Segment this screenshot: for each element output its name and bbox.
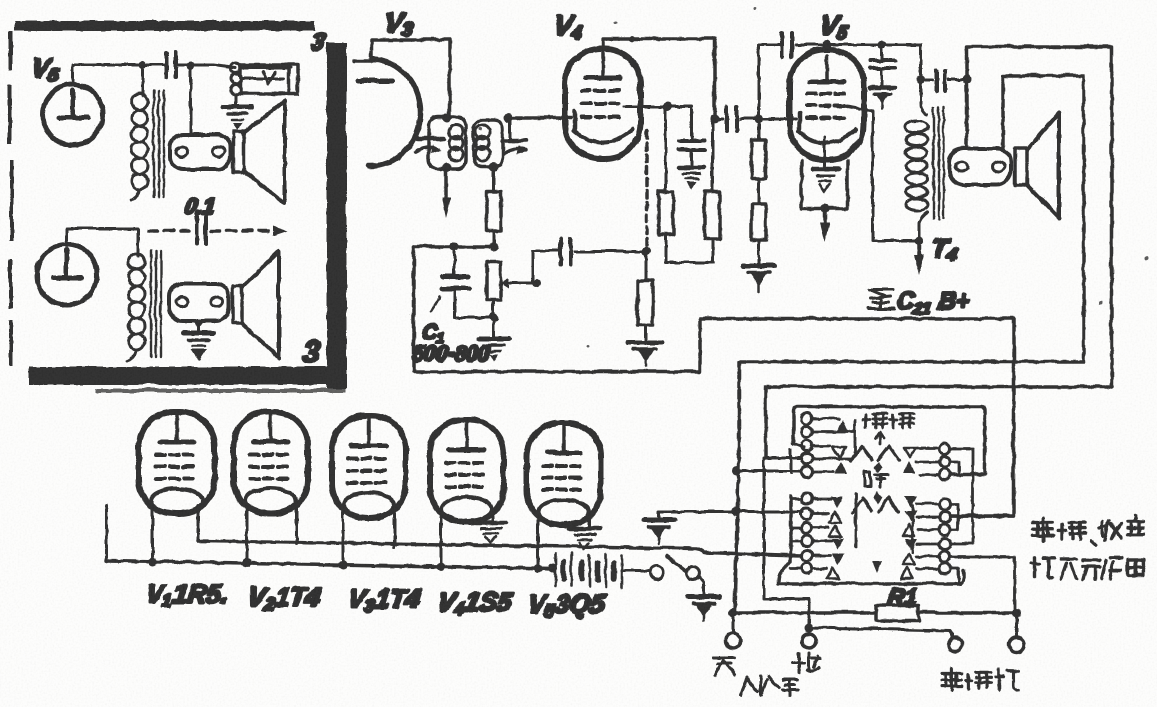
inner loop wire <box>734 75 1083 612</box>
ground (inset upper) <box>222 106 251 129</box>
output transformer T4 <box>905 44 943 274</box>
right stubs upper <box>915 447 984 543</box>
tube V1 <box>138 411 214 513</box>
label V3 <box>382 6 416 40</box>
ground at tube V4b <box>475 522 505 542</box>
mark at border top <box>309 28 327 55</box>
tube V3 arc <box>353 58 420 165</box>
switch frame <box>778 406 984 583</box>
dashed link with 0.1 cap <box>148 216 287 243</box>
right hollow+solid arrows upper <box>902 447 916 473</box>
label listen <box>864 471 887 486</box>
scan specks <box>479 7 1149 347</box>
label 0.1 <box>182 193 216 218</box>
left stubs lower <box>790 494 855 568</box>
left arrows upper <box>832 419 848 473</box>
earpiece (output) <box>949 148 1010 184</box>
coupling cap V4-V5 <box>714 106 795 130</box>
label telephone set <box>941 668 1018 690</box>
V5 plate wire to T4 bottom <box>843 105 918 240</box>
capacitor to ground (V4) <box>678 140 704 189</box>
wires into switch from left <box>732 457 801 475</box>
label zhi (to) <box>867 289 893 308</box>
left contacts upper <box>801 413 812 477</box>
label earth <box>792 652 819 672</box>
arrow down small (below listen) <box>873 490 881 504</box>
coupling capacitor <box>560 238 650 264</box>
left contact stubs upper <box>812 418 854 471</box>
speaker lower (inset) <box>232 251 278 357</box>
cathode box below V5 <box>801 136 847 242</box>
capacitor (inset top) <box>138 52 235 76</box>
earpiece lower (inset) <box>168 283 228 330</box>
diamond below zigzag <box>874 461 882 472</box>
zigzag upper <box>850 445 898 460</box>
mark 3 (inset corner) <box>300 335 322 368</box>
power switch blade <box>650 556 704 594</box>
IF can 1 <box>415 113 465 172</box>
right stubs lower <box>916 503 1014 612</box>
center bottom arrow <box>871 548 881 572</box>
tube labels <box>143 578 230 610</box>
left arrows lower <box>826 496 843 578</box>
grid wire out <box>624 102 691 141</box>
label speak <box>862 413 913 427</box>
tube V5b <box>526 422 600 524</box>
wire to earth terminal <box>763 457 808 627</box>
tube V3b <box>331 415 405 517</box>
right contacts lower <box>939 498 950 574</box>
ground below blade <box>687 596 719 620</box>
switch contacts (inset) <box>190 62 290 133</box>
zigzag lower <box>852 497 897 512</box>
label outside line <box>740 675 797 695</box>
label C1 500-800 <box>420 321 446 345</box>
wire V4 plate top <box>602 35 719 123</box>
R1 resistor <box>732 605 1014 620</box>
inset box borders <box>7 20 346 392</box>
cap+ground right of V5 top <box>869 44 894 108</box>
upper bus <box>197 540 800 555</box>
left contacts lower <box>801 493 812 574</box>
resistor pair below V4 <box>658 106 719 262</box>
speaker horn (top right) <box>1014 112 1058 217</box>
side note line2 <box>1030 557 1142 579</box>
stacked resistors left of V5 <box>751 118 765 264</box>
terminal D (phone right) <box>1009 608 1024 652</box>
tube V2 <box>233 411 307 513</box>
wire node row y246 <box>413 242 498 251</box>
wire can2 to V4 <box>511 115 570 119</box>
tube leads <box>106 505 588 568</box>
speaker upper (inset) <box>233 100 284 203</box>
right arrows lower <box>900 496 916 578</box>
cap right of V5 to speaker <box>916 70 971 90</box>
bus junction dots <box>148 557 542 573</box>
resistor mid with ground <box>628 251 661 366</box>
label V5 <box>817 9 851 43</box>
resistor below can2 <box>486 166 500 247</box>
lower bus <box>106 560 554 568</box>
terminal B (earth) <box>801 623 952 648</box>
tube V4 <box>564 48 640 158</box>
output device rect (inset) <box>240 64 297 93</box>
terminal C (phone left) <box>948 637 962 651</box>
right contacts upper <box>939 443 950 480</box>
arrow up small <box>875 431 883 444</box>
tube lower (inset) <box>36 228 137 304</box>
label T4 <box>929 232 959 264</box>
tube V4b <box>429 419 503 521</box>
side note line1 <box>1032 515 1142 545</box>
potentiometer <box>454 250 558 322</box>
ground (inset lower) <box>183 332 213 360</box>
ground below pot <box>478 317 508 361</box>
transformer coil upper (inset) <box>130 64 163 200</box>
ground mid with wire to bus2 <box>643 507 802 544</box>
label R1 <box>885 583 918 609</box>
IF can 2 <box>473 113 527 171</box>
tube V5 <box>789 44 863 159</box>
label V4 <box>551 9 585 43</box>
top wire + cap <box>758 32 920 118</box>
dashed AVC line <box>644 130 648 248</box>
wire V3 top <box>371 39 449 117</box>
outer loop wire <box>765 46 1111 457</box>
terminal A (antenna) <box>725 608 740 648</box>
ground at tube V5b <box>569 528 599 548</box>
label sky (antenna) <box>712 657 734 675</box>
ground below stacked resistors <box>742 265 774 291</box>
earpiece upper (inset) <box>169 134 230 169</box>
label V5 (inset) <box>29 52 62 84</box>
tube V5 upper (inset) <box>42 64 142 144</box>
battery pack <box>555 553 648 587</box>
capacitor C1 <box>430 246 468 317</box>
transformer coil lower (inset) <box>127 250 160 360</box>
big routing: C1 box outline <box>413 246 1013 515</box>
arrow below can1 <box>441 168 450 218</box>
